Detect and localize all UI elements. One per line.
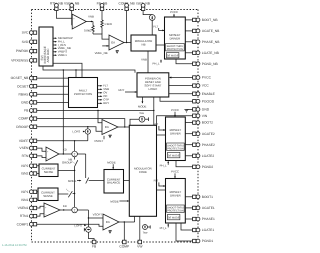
op-amp U4 error amp 2	[93, 212, 119, 230]
wire PGND2	[176, 161, 193, 167]
svg-text:PH_L: PH_L	[160, 226, 167, 230]
wire UGATE_NB	[185, 30, 192, 32]
pin UGATE2 (right)	[193, 132, 215, 136]
junction on bus 2 down to VDIFF line	[63, 69, 64, 154]
wire NB error amp output to MODULATOR NB	[124, 42, 131, 44]
wire RTN into diff amp	[37, 156, 46, 158]
wire current balance to modulator core	[124, 180, 130, 182]
pin COMP1 (left)	[17, 222, 37, 226]
label PH_L into driver1 bottom	[160, 223, 169, 230]
svg-text:GND: GND	[202, 108, 210, 112]
svg-text:DRIVER: DRIVER	[170, 131, 181, 135]
wire LGATE2	[185, 155, 192, 157]
svg-text:PROTECTION: PROTECTION	[167, 48, 184, 51]
wire PGND1	[176, 223, 193, 241]
pin OCSET (left)	[17, 84, 37, 88]
svg-text:VSOFT: VSOFT	[93, 212, 103, 216]
wire COMP1 into error amp 2	[37, 224, 103, 226]
wire MODE into modulator core	[110, 200, 129, 204]
resistor 0.8k (VNB leg)	[84, 22, 94, 35]
svg-text:OCSET: OCSET	[17, 84, 28, 88]
wire GND to fault	[37, 101, 69, 103]
pin UGATE1 (right)	[193, 206, 215, 210]
wire RTN1 into diff amp 1ph	[37, 214, 44, 216]
block CURRENT SENSE (phase 2)	[39, 164, 58, 177]
op-amp differential amp (VSEN/RTN)	[46, 147, 59, 161]
svg-text:PROTECTION: PROTECTION	[74, 92, 92, 96]
pin SVC (left)	[22, 31, 37, 35]
pin RTN (left)	[22, 154, 37, 158]
block CURRENT BALANCE	[104, 170, 124, 194]
svg-text:COMP1: COMP1	[17, 222, 29, 226]
pin FB (left)	[24, 109, 37, 113]
pin PHASE_NB (right)	[193, 40, 221, 44]
pin PGND2 (right)	[193, 165, 214, 169]
wire VW bottom pin to core	[139, 216, 141, 240]
svg-text:LGATE_NB: LGATE_NB	[202, 51, 220, 55]
wire core pwm to driver1	[157, 189, 166, 191]
wire RBIAS to fault	[37, 93, 69, 95]
label PH_L into NB driver bottom	[153, 59, 162, 65]
pin FB_NB (top)	[97, 1, 108, 10]
svg-text:VNB: VNB	[88, 15, 94, 19]
pin FB (bottom)	[92, 240, 97, 248]
svg-text:RTN: RTN	[22, 154, 29, 158]
node VNB	[86, 15, 94, 23]
svg-text:UGATE2: UGATE2	[202, 132, 215, 136]
wire BOOT_NB	[185, 19, 192, 21]
svg-text:PH_L: PH_L	[160, 163, 167, 167]
summing node 2	[72, 207, 78, 213]
wire PGND_NB	[176, 59, 193, 64]
pin LGATE1 (right)	[193, 228, 215, 232]
pin ISN2 (left)	[21, 172, 37, 176]
svg-text:DE MODE: DE MODE	[168, 154, 180, 157]
svg-text:DRIVER: DRIVER	[170, 193, 181, 197]
pin PHASE2 (right)	[193, 143, 215, 147]
svg-text:DROOP: DROOP	[16, 125, 29, 129]
svg-text:COMP: COMP	[18, 117, 29, 121]
wire current sense 2 output	[58, 170, 75, 172]
ground marker below NB error amp	[116, 51, 119, 53]
svg-text:PHASE1: PHASE1	[202, 217, 215, 221]
svg-text:VCC: VCC	[202, 84, 210, 88]
pin GND (right)	[193, 108, 210, 112]
svg-text:FLT: FLT	[154, 179, 159, 183]
pin PHASE1 (right)	[193, 217, 215, 221]
svg-text:SENSE: SENSE	[44, 170, 54, 174]
pin ISP1 (left)	[21, 190, 36, 194]
pin UGATE_NB (right)	[193, 29, 221, 33]
wire FB branch into error amp	[98, 111, 102, 123]
wire PHASE1	[185, 218, 192, 220]
wire RDY into POR logic	[118, 88, 137, 93]
node diff amp 1 output	[60, 204, 72, 211]
wire PVCC (arrow toward POR)	[169, 77, 193, 79]
svg-text:COMP: COMP	[119, 245, 130, 249]
wire ENABLE	[169, 93, 193, 95]
svg-text:NB: NB	[142, 42, 146, 46]
wire VSEN into diff amp 2ph	[37, 148, 46, 151]
svg-text:SVC: SVC	[22, 31, 29, 35]
wire VDIFF line	[37, 140, 88, 141]
svg-text:ENABLE: ENABLE	[202, 92, 216, 96]
wire BOOT2	[185, 122, 192, 124]
block FAULT PROTECTION	[69, 78, 98, 108]
svg-text:1-16-2014 12:36 PM: 1-16-2014 12:36 PM	[2, 244, 27, 247]
pin PGOOD (right)	[193, 99, 215, 103]
pin DROOP (left)	[16, 125, 36, 129]
svg-text:PVCC: PVCC	[170, 10, 178, 14]
svg-text:I_OFS: I_OFS	[72, 129, 80, 133]
wire LGATE1	[181, 223, 193, 230]
pin ISN1 (left)	[21, 198, 37, 202]
pin COMP (bottom)	[119, 240, 130, 248]
current source I_OFS	[72, 127, 91, 141]
svg-text:LOGIC: LOGIC	[149, 87, 158, 91]
svg-text:PGOOD: PGOOD	[202, 99, 215, 103]
pin GND (left)	[21, 101, 37, 105]
svg-text:GROUP: GROUP	[62, 161, 72, 165]
svg-text:RTN1: RTN1	[20, 214, 29, 218]
pin LGATE_NB (right)	[193, 51, 220, 55]
svg-text:VW: VW	[137, 245, 143, 249]
pin VFIXEN/SS (left)	[11, 59, 37, 63]
wire FLT into driver2	[154, 122, 166, 131]
wire COMP bottom pin	[123, 222, 125, 240]
wire MODULATOR NB pwm to NB driver	[156, 44, 165, 46]
svg-text:MODE: MODE	[110, 200, 119, 204]
label PVCC over driver1	[171, 170, 179, 179]
block POWER-ON RESET AND SOFT-START LOGIC	[137, 73, 169, 97]
op-amp differential amp phase1	[44, 203, 60, 217]
svg-text:AND DAC: AND DAC	[46, 48, 50, 63]
svg-text:SENSE: SENSE	[43, 194, 53, 198]
svg-text:VREF1: VREF1	[58, 53, 67, 57]
svg-text:SVD: SVD	[22, 40, 29, 44]
ground marker below error amp 2	[109, 231, 112, 233]
op-amp NB differential amplifier	[72, 14, 86, 29]
label VSOFT below error amp	[94, 136, 104, 143]
svg-text:PGND1: PGND1	[202, 239, 214, 243]
label MODE into current balance top	[107, 160, 116, 169]
chip boundary (dashed)	[32, 10, 199, 243]
svg-text:RDY: RDY	[118, 88, 124, 92]
wire OCSET to fault	[37, 85, 69, 87]
svg-text:ISN1: ISN1	[21, 198, 28, 202]
svg-text:KD: KD	[63, 204, 67, 208]
wire error amp 2 output into core bottom	[119, 216, 135, 222]
svg-text:UGATE1: UGATE1	[202, 206, 215, 210]
pin PWROK (left)	[16, 49, 37, 53]
svg-text:KD: KD	[63, 147, 67, 151]
svg-text:ISN2: ISN2	[21, 172, 28, 176]
op-amp U2 NB error amp	[109, 35, 124, 50]
pin PGND1 (right)	[193, 239, 214, 243]
svg-text:MODE: MODE	[107, 160, 116, 164]
wire error amp output to modulator core	[118, 126, 129, 128]
wire VSEN_NB to NB diff amp	[71, 11, 74, 25]
pin VW (bottom)	[137, 240, 143, 248]
summing node 1	[72, 141, 78, 157]
pin ENABLE (right)	[193, 92, 216, 96]
wire VNB from modulator NB to POR logic	[141, 51, 148, 73]
block MOSFET DRIVER (phase 2)	[166, 117, 186, 161]
svg-text:LGATE1: LGATE1	[202, 228, 215, 232]
pin ISET_NB (top)	[136, 1, 151, 10]
current source ISET_NB	[143, 11, 155, 36]
label PH_L into driver2 bottom	[160, 161, 169, 168]
current source I_OFS phase1	[74, 223, 95, 240]
svg-text:GND: GND	[21, 101, 29, 105]
svg-text:0.8kΩ: 0.8kΩ	[84, 29, 91, 33]
svg-text:MODE: MODE	[68, 179, 77, 183]
svg-text:PGND_NB: PGND_NB	[202, 62, 219, 66]
svg-text:VREF_NB: VREF_NB	[95, 51, 108, 55]
svg-text:PWROK: PWROK	[16, 49, 29, 53]
wire GND with ground symbol	[184, 109, 192, 112]
wire current summing chain	[74, 167, 75, 208]
svg-text:BOOT_NB: BOOT_NB	[202, 18, 219, 22]
block MODULATOR CORE	[129, 125, 156, 216]
wire DROOP into error amp	[37, 126, 102, 131]
svg-text:LGATE2: LGATE2	[202, 154, 215, 158]
wire ISN2 into current sense 2	[37, 173, 39, 175]
op-amp U3 error amp EA	[102, 120, 118, 135]
wire ISP2 into current sense 2	[37, 165, 39, 167]
pin RTN1 (left)	[20, 214, 37, 218]
current source Tsw 2	[143, 225, 151, 235]
block MOSFET DRIVER (phase 1)	[166, 179, 186, 224]
wire summer 2 output chain	[77, 210, 103, 227]
wire COMP_NB to error amp output	[126, 11, 127, 44]
svg-text:DRIVER: DRIVER	[170, 36, 181, 40]
wire UGATE2	[185, 133, 192, 135]
pin PGND_NB (right)	[193, 62, 219, 66]
svg-text:PROTECTION: PROTECTION	[167, 209, 184, 212]
svg-text:PH_L: PH_L	[153, 61, 160, 65]
svg-text:VDIFF: VDIFF	[19, 139, 29, 143]
svg-text:BOOT1: BOOT1	[202, 195, 213, 199]
svg-text:Σ: Σ	[74, 152, 76, 156]
pin SVD (left)	[22, 40, 37, 44]
wire core pwm to driver2	[157, 134, 166, 136]
pin VSEN (left)	[19, 146, 36, 150]
svg-text:CORE: CORE	[139, 170, 147, 174]
wire VCC	[169, 85, 193, 87]
label PVCC over driver2	[171, 108, 179, 117]
block MOSFET DRIVER (NB)	[165, 17, 186, 59]
svg-text:UGATE_NB: UGATE_NB	[202, 29, 220, 33]
node VREF_NB input	[95, 45, 109, 55]
svg-text:VIN: VIN	[202, 114, 208, 118]
junction on bus 2 to FAULT top	[75, 69, 76, 77]
wire UGATE1	[185, 207, 192, 209]
wire PHASE_NB	[185, 41, 192, 43]
svg-text:BALANCE: BALANCE	[107, 181, 120, 185]
node diff amp output to summer	[59, 147, 72, 154]
svg-text:VSEN1: VSEN1	[18, 206, 29, 210]
wire BOOT1	[185, 196, 192, 198]
wire reference bus 1 into FAULT top	[53, 63, 82, 77]
svg-text:PHASE_NB: PHASE_NB	[202, 40, 220, 44]
wire RTN_NB to NB diff amp	[56, 11, 72, 19]
pin VCC (right)	[193, 84, 210, 88]
wire OCSET_NB to fault	[37, 77, 69, 79]
svg-text:BOOT2: BOOT2	[202, 121, 213, 125]
label PVCC over NB driver	[170, 10, 178, 17]
svg-text:PVCC: PVCC	[202, 76, 212, 80]
wire POR to core top	[153, 97, 154, 125]
pin BOOT2 (right)	[193, 121, 214, 125]
svg-text:PVCC: PVCC	[171, 108, 179, 112]
wire current sense 1 output with switch	[58, 189, 75, 197]
wire resistor junction to NB error amp	[93, 34, 109, 39]
DAC output stubs NB GROUP / PH_L / I_OFS / VREF_NB / VREFS / VREF1	[53, 36, 73, 57]
wire summer 1 to current balance with MODE switch	[68, 154, 104, 184]
current source Tsw (oscillator)	[130, 111, 149, 125]
svg-text:VSEN: VSEN	[19, 146, 29, 150]
wire ISN1 into current sense 1	[37, 199, 38, 201]
svg-text:VNB: VNB	[141, 57, 147, 61]
pin LGATE2 (right)	[193, 154, 215, 158]
pin VSEN_NB (top)	[64, 1, 80, 10]
svg-text:EA: EA	[111, 41, 115, 45]
svg-text:DE MODE: DE MODE	[167, 54, 179, 57]
pin BOOT_NB (right)	[193, 18, 219, 22]
wire PGOOD	[160, 97, 193, 101]
block MODULATOR NB	[131, 35, 156, 51]
svg-text:ISP2: ISP2	[21, 164, 28, 168]
svg-text:PGND2: PGND2	[202, 165, 214, 169]
svg-text:EA: EA	[105, 125, 109, 129]
svg-text:PROTECTION: PROTECTION	[167, 147, 184, 150]
pin RBIAS (left)	[18, 92, 36, 96]
block U1 SVI INTERFACE AND DAC	[39, 27, 53, 66]
svg-text:VSOFT: VSOFT	[94, 139, 104, 143]
pin PVCC (right)	[193, 76, 212, 80]
wire FLT into driver1	[154, 179, 166, 187]
svg-text:RBIAS: RBIAS	[18, 92, 29, 96]
svg-text:VFIXEN/SS: VFIXEN/SS	[11, 59, 29, 63]
svg-text:FLT: FLT	[153, 24, 158, 28]
wire reference bus 2 to POR logic	[43, 66, 135, 73]
block CURRENT SENSE (phase 1)	[38, 188, 58, 201]
pin RTN_NB (top)	[50, 1, 64, 10]
pin VIN (right)	[193, 114, 208, 118]
switch NB GROUP	[62, 157, 78, 167]
svg-text:FLT: FLT	[154, 122, 159, 126]
svg-text:MODE: MODE	[138, 104, 147, 108]
svg-text:PHASE2: PHASE2	[202, 143, 215, 147]
pin COMP (left)	[18, 117, 36, 121]
wire ISP1 into current sense 1	[37, 191, 38, 193]
ground marker below error amp	[109, 135, 112, 137]
pin VSEN1 (left)	[18, 206, 37, 210]
pin OCSET_NB (left)	[11, 76, 37, 80]
pin BOOT1 (right)	[193, 195, 214, 199]
wire LGATE_NB	[185, 52, 192, 54]
svg-text:DE MODE: DE MODE	[168, 216, 180, 219]
svg-text:Σ: Σ	[74, 208, 76, 212]
resistor 1.9k (FB_NB leg)	[101, 11, 112, 35]
svg-text:OCSET_NB: OCSET_NB	[11, 76, 30, 80]
svg-text:EA: EA	[106, 220, 110, 224]
pin COMP_NB (top)	[118, 1, 135, 10]
wire FB pin across to POR drop	[37, 110, 154, 111]
svg-text:RDY: RDY	[103, 101, 109, 105]
svg-text:PVCC: PVCC	[171, 170, 179, 174]
wire PHASE2	[185, 144, 192, 146]
wire VSEN1 into diff amp 1ph	[37, 206, 44, 208]
svg-text:ISP1: ISP1	[21, 190, 28, 194]
wire FLT into NB driver	[153, 24, 164, 31]
wire COMP to error amp output	[37, 119, 126, 128]
pin ISP2 (left)	[21, 164, 36, 168]
svg-text:1.9kΩ: 1.9kΩ	[104, 22, 111, 26]
pin VDIFF (left)	[19, 139, 37, 143]
wire VIN into modulator core	[157, 116, 193, 126]
wire POR MODE output arrow	[138, 97, 147, 108]
fault status outputs FLT VNB OV OC OTP RDY	[98, 84, 110, 106]
